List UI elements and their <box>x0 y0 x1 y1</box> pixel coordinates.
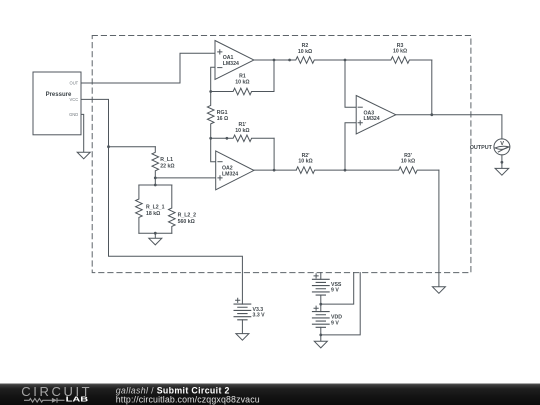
resistor R3 10k horizontal <box>345 57 432 64</box>
wire VCC to R_L1 <box>109 146 156 148</box>
op-amp OA2 LM324 <box>216 151 254 190</box>
svg-text:560 kΩ: 560 kΩ <box>178 219 195 225</box>
op-amp OA3 LM324 <box>356 96 396 134</box>
label VDD <box>331 314 342 326</box>
wire OA1 output to R2 net <box>254 59 290 61</box>
svg-text:3.3 V: 3.3 V <box>253 312 266 318</box>
label R1 <box>235 74 249 86</box>
svg-text:R_L1: R_L1 <box>160 157 173 163</box>
wire R_L1 junction to OA2 + <box>155 177 215 179</box>
node OA3 + branch junction <box>344 169 347 172</box>
wire junction down to parallel pair <box>154 178 156 185</box>
svg-text:10 kΩ: 10 kΩ <box>401 159 415 165</box>
svg-text:9 V: 9 V <box>331 288 339 294</box>
svg-text:LM324: LM324 <box>364 116 380 122</box>
footer url line <box>116 394 260 404</box>
svg-text:http://circuitlab.com/czqgxq88: http://circuitlab.com/czqgxq88zvacu <box>116 394 260 404</box>
label R2 <box>298 43 312 55</box>
label Pressure <box>46 92 72 98</box>
wire VSS bottom to junction <box>320 295 322 304</box>
wire R1' right down to OA2 out <box>273 138 275 170</box>
battery V3.3 <box>234 298 251 320</box>
footer <box>0 384 540 405</box>
label R_L2_1 <box>146 205 165 217</box>
resistor R_L1 22k vertical <box>152 147 159 178</box>
node OA2 out junction <box>273 169 276 172</box>
battery VDD <box>312 306 329 327</box>
wire OA3 + branch <box>345 123 356 170</box>
node OA3 out junction <box>430 113 433 116</box>
wire VSS top rail <box>320 273 322 280</box>
label R3' <box>401 153 415 165</box>
wire V3.3 to ground <box>241 320 243 334</box>
node OA3 - branch junction <box>344 59 347 62</box>
label VSS <box>331 282 342 294</box>
ground (R3' net) <box>432 287 445 294</box>
label RG1 <box>217 110 228 122</box>
wire VSS- rail to box <box>321 273 354 305</box>
resistor R2' 10k horizontal <box>296 167 345 174</box>
ground (sensor) <box>77 152 90 159</box>
wire parallel bottom bar <box>139 232 172 234</box>
resistor R_L2_1 18k vertical <box>136 185 143 233</box>
wire to ground stub <box>154 233 156 238</box>
svg-text:10 kΩ: 10 kΩ <box>235 128 249 134</box>
wire VCC net (sensor VCC to V3.3) <box>81 99 242 304</box>
node RG1 bottom junction <box>209 137 212 140</box>
resistor R1' 10k horizontal <box>211 135 274 142</box>
node voltmeter bottom <box>501 161 504 164</box>
ground (voltmeter) <box>495 168 509 175</box>
resistor R1 10k horizontal with wires <box>211 88 274 95</box>
svg-text:Pressure: Pressure <box>46 92 72 98</box>
label R_L2_2 <box>178 213 197 225</box>
svg-text:R_L2_2: R_L2_2 <box>178 213 197 219</box>
CircuitLab logo wordmark CIRCUIT <box>21 384 92 399</box>
svg-text:10 kΩ: 10 kΩ <box>298 49 312 55</box>
label V in voltmeter <box>500 141 504 147</box>
wire OA3 output to voltmeter <box>396 115 502 139</box>
schematic goes here <box>33 36 510 348</box>
battery VSS <box>312 274 329 295</box>
svg-text:18 kΩ: 18 kΩ <box>146 211 160 217</box>
resistor R_L2_2 560k vertical <box>169 185 176 233</box>
wire VDD bottom <box>320 327 322 341</box>
wire OUT net (sensor OUT to OA1 +) <box>81 53 215 83</box>
pin labels OUT VCC GND <box>69 81 79 117</box>
node R2 left terminal <box>288 59 291 62</box>
svg-text:OUT: OUT <box>70 81 79 86</box>
wire R3 down to OA3 out <box>431 60 433 115</box>
label V3.3 <box>253 307 266 318</box>
svg-text:VCC: VCC <box>70 97 79 102</box>
label OUTPUT net <box>470 145 493 151</box>
node R_L1 bottom junction <box>154 177 157 180</box>
svg-text:OUTPUT: OUTPUT <box>470 145 493 151</box>
wire OA2 - branch <box>211 138 216 161</box>
footer title line <box>116 385 230 395</box>
resistor R3' 10k horizontal <box>345 167 439 174</box>
wire OA1 - feedback stub <box>211 67 215 91</box>
label R3 <box>393 43 407 55</box>
wire R3' down to ground <box>438 170 440 287</box>
svg-text:10 kΩ: 10 kΩ <box>235 80 249 86</box>
node R1 left junction <box>209 90 212 93</box>
svg-text:GND: GND <box>69 112 78 117</box>
wire OA1 out down to R1 <box>273 60 275 92</box>
wire OA2 output to R2' net <box>254 169 296 171</box>
node parallel bottom <box>154 232 157 235</box>
wire VDD- rail to box <box>321 273 360 335</box>
label R1' <box>235 122 249 134</box>
svg-text:22 kΩ: 22 kΩ <box>160 163 174 169</box>
wire sensor GND stub <box>81 114 84 152</box>
wire parallel top bar <box>139 184 172 186</box>
voltmeter OUTPUT <box>494 139 510 155</box>
svg-text:10 kΩ: 10 kΩ <box>393 49 407 55</box>
logo schematic squiggle: wire, resistor, diode <box>24 398 65 403</box>
label OA2 <box>222 166 238 178</box>
label OA1 <box>223 55 239 67</box>
node parallel top <box>154 184 157 187</box>
CircuitLab logo wordmark LAB <box>66 395 88 404</box>
wire voltmeter to ground <box>501 155 503 169</box>
ground (V3.3) <box>236 334 249 341</box>
wire junction to VDD <box>320 304 322 312</box>
svg-text:9 V: 9 V <box>331 320 339 326</box>
ground (below R_L2 pair) <box>149 238 162 245</box>
wire OA3 - branch <box>345 60 356 107</box>
sensor P1 Pressure box <box>33 72 81 135</box>
label OA3 <box>364 110 380 122</box>
node VSS/VDD junction <box>319 303 322 306</box>
svg-text:LM324: LM324 <box>223 61 239 67</box>
svg-text:LAB: LAB <box>66 395 88 404</box>
dashed boundary box <box>92 36 471 273</box>
op-amp OA1 LM324 <box>215 41 254 80</box>
ground (VDD) <box>314 341 327 348</box>
svg-text:R_L2_1: R_L2_1 <box>146 205 165 211</box>
node OA1 out junction <box>273 59 276 62</box>
svg-text:LM324: LM324 <box>222 171 238 177</box>
label R2' <box>298 153 312 165</box>
node R1' left terminal <box>226 137 229 140</box>
resistor RG1 16ohm vertical <box>207 92 214 139</box>
resistor R2 10k horizontal <box>290 57 345 64</box>
svg-text:16 Ω: 16 Ω <box>217 116 228 122</box>
node VDD bottom junction <box>319 334 322 337</box>
label R_L1 <box>160 157 174 169</box>
svg-text:V: V <box>500 141 504 147</box>
svg-text:10 kΩ: 10 kΩ <box>298 159 312 165</box>
node VCC junction <box>107 145 110 148</box>
